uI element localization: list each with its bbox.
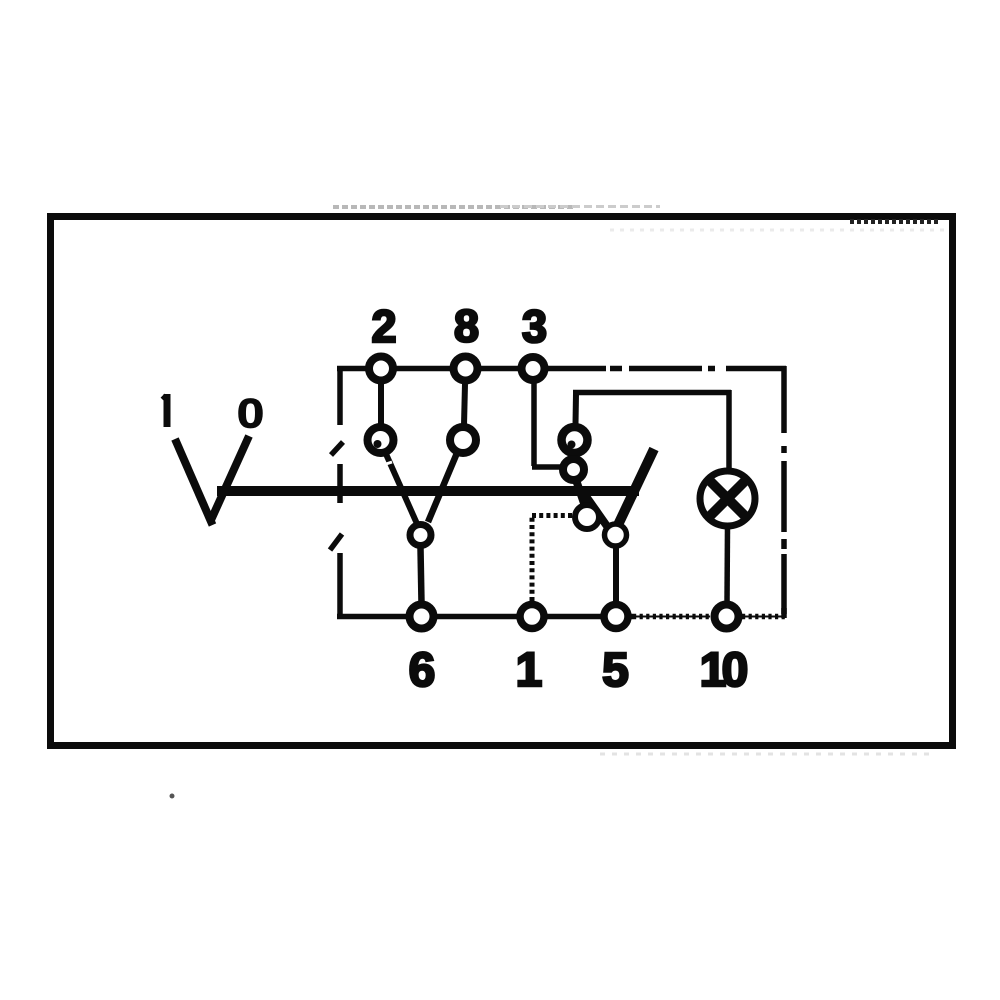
svg-text:0: 0 xyxy=(237,389,265,437)
svg-text:1: 1 xyxy=(516,644,543,697)
svg-text:3: 3 xyxy=(522,301,547,352)
svg-text:0: 0 xyxy=(722,644,749,697)
svg-text:8: 8 xyxy=(454,301,479,352)
svg-text:5: 5 xyxy=(602,644,629,697)
svg-text:6: 6 xyxy=(409,644,436,697)
svg-text:2: 2 xyxy=(371,301,396,352)
